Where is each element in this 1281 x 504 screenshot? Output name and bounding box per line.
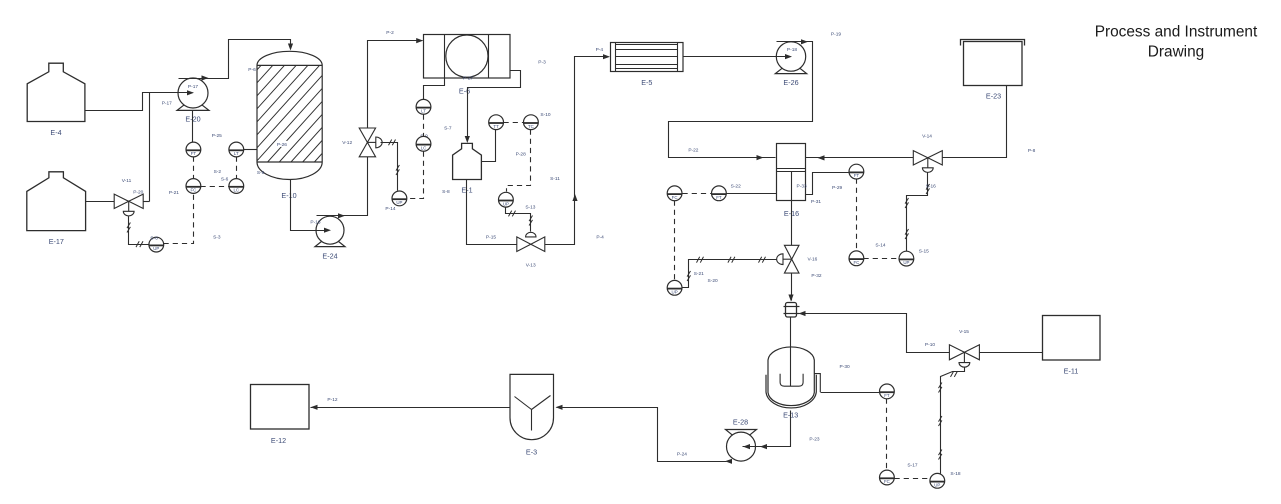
instrument FT left of E-16 [712, 186, 727, 201]
signal dashed FC to UP S-18 [895, 478, 930, 480]
instrument FT on E-13 [880, 384, 895, 399]
signal line UP to V-16 [683, 257, 783, 288]
signal S-10 dashed TT to TC [504, 112, 551, 123]
signal line UP to V-13 [506, 208, 533, 232]
svg-text:E-17: E-17 [49, 237, 64, 246]
tank E-1 [442, 126, 481, 196]
instrument FT [186, 133, 222, 157]
svg-text:V-14: V-14 [922, 134, 932, 140]
svg-text:LC: LC [233, 188, 239, 193]
svg-text:FC: FC [190, 188, 196, 193]
svg-text:S-6: S-6 [221, 177, 229, 183]
svg-text:FT: FT [884, 393, 890, 398]
svg-text:S-22: S-22 [731, 183, 741, 189]
instrument FC left of E-16 [667, 186, 682, 201]
signal dashed FC to UP [674, 201, 676, 281]
pump E-20 [162, 78, 209, 124]
instrument LC [229, 179, 244, 194]
svg-text:FT: FT [854, 173, 860, 178]
svg-text:P-23: P-23 [809, 437, 819, 443]
tank E-11 [1043, 316, 1101, 376]
svg-text:P-6: P-6 [248, 67, 256, 73]
svg-text:P-3: P-3 [538, 60, 546, 66]
instrument UP S-20 [667, 280, 682, 295]
svg-text:P-30: P-30 [840, 364, 850, 370]
svg-text:V-16: V-16 [807, 257, 817, 263]
tank E-4 [27, 63, 85, 137]
svg-text:P-22: P-22 [688, 148, 698, 154]
svg-text:UP: UP [934, 482, 940, 487]
instrument LC on E-6 [416, 136, 431, 151]
valve V-15 [949, 329, 979, 367]
compressor E-6 [424, 35, 547, 96]
svg-text:S-15: S-15 [919, 249, 929, 255]
svg-text:P-14: P-14 [385, 206, 395, 212]
pump E-28 [726, 417, 757, 461]
signal dashed FC to LC [201, 177, 229, 187]
svg-text:LC: LC [421, 145, 427, 150]
instrument TT [489, 115, 504, 130]
svg-text:S-6: S-6 [150, 236, 158, 242]
svg-text:P-16: P-16 [310, 220, 320, 226]
svg-text:E-28: E-28 [733, 417, 748, 426]
svg-text:FC: FC [853, 260, 859, 265]
svg-text:E-11: E-11 [1064, 366, 1079, 375]
svg-text:FT: FT [716, 195, 722, 200]
signal dashed FT to FC E-13 [886, 399, 888, 471]
stem E-20 base to FT [192, 111, 194, 143]
reactor E-13 [766, 347, 880, 420]
signal line V-15 to UP S-18 [939, 367, 965, 474]
pipe P-10 from V-15 to fitting [799, 311, 950, 353]
svg-text:S-21: S-21 [694, 271, 704, 277]
pipe from E-11 to V-15 [980, 352, 1043, 354]
svg-text:E-26: E-26 [783, 78, 798, 87]
svg-text:E-12: E-12 [271, 436, 286, 445]
inline fitting above E-13 [784, 295, 800, 318]
tap FT to E-16 [727, 193, 777, 195]
valve V-16 [777, 245, 822, 278]
pump E-24 [310, 216, 345, 261]
svg-text:FC: FC [884, 479, 890, 484]
svg-text:P-27: P-27 [463, 75, 473, 81]
svg-text:Drawing: Drawing [1148, 44, 1204, 61]
pipe from fitting into E-13 [790, 317, 792, 347]
instrument TC [524, 115, 539, 130]
vessel E-10 packed column [174, 51, 401, 200]
svg-text:UP: UP [903, 260, 909, 265]
svg-text:P-24: P-24 [677, 452, 687, 458]
svg-text:TC: TC [528, 124, 534, 129]
valve V-13 [486, 232, 545, 268]
tap LT to E-10 [244, 149, 257, 151]
svg-text:V-15: V-15 [959, 329, 969, 335]
instrument UP S-6 [149, 236, 164, 253]
svg-text:P-8: P-8 [1028, 148, 1036, 154]
pipe P-2 from V-12 to E-6 [368, 30, 424, 129]
pipe from V-11 to junction [144, 201, 150, 203]
pipe from E-17 to V-11 [86, 201, 115, 203]
signal dashed FT to FC right [856, 179, 858, 251]
svg-text:S-7: S-7 [444, 126, 452, 132]
svg-text:P-26: P-26 [277, 142, 287, 148]
tank E-12 [251, 385, 310, 446]
pipe P-32 from V-16 to fitting [791, 274, 793, 301]
svg-text:P-12: P-12 [327, 397, 337, 403]
svg-text:LT: LT [234, 151, 239, 156]
svg-text:P-31: P-31 [811, 199, 821, 205]
svg-text:S-16: S-16 [926, 184, 936, 190]
svg-text:UP: UP [153, 246, 159, 251]
svg-text:S-8: S-8 [442, 189, 450, 195]
pipe P-4 from V-13 to E-5 [545, 47, 611, 245]
signal S-3 dashed UP to FC [164, 194, 221, 244]
filter E-3 [510, 374, 554, 456]
svg-text:UP: UP [503, 201, 509, 206]
svg-text:P-19: P-19 [831, 32, 841, 38]
svg-text:P-15: P-15 [486, 235, 496, 241]
svg-text:S-5: S-5 [257, 170, 265, 176]
svg-text:UP: UP [672, 289, 678, 294]
svg-text:P-4: P-4 [596, 47, 604, 53]
svg-text:S-3: S-3 [213, 234, 221, 240]
svg-text:P-20: P-20 [133, 190, 143, 196]
pipe from E-5 to E-26 [684, 54, 793, 59]
svg-text:P-32: P-32 [811, 273, 821, 279]
svg-text:E-10: E-10 [281, 191, 296, 200]
instrument FC S-17 [880, 463, 918, 485]
tank E-17 [27, 172, 86, 246]
signal S-9 dashed LC to UP [407, 152, 424, 199]
svg-text:S-14: S-14 [875, 242, 885, 248]
svg-text:S-11: S-11 [550, 176, 560, 182]
signal P-28 dashed TC to UP [507, 130, 561, 192]
heat exchanger E-5 [611, 43, 684, 87]
signal S-22 dashed FC to FT [683, 183, 742, 193]
svg-text:V-12: V-12 [342, 140, 352, 146]
pipe from E-10 to E-24 [291, 180, 332, 233]
svg-text:E-23: E-23 [986, 91, 1001, 100]
svg-text:P-2: P-2 [386, 30, 394, 36]
instrument FC S-14 [849, 242, 886, 265]
signal dashed FT to FC [193, 157, 195, 179]
valve V-11 [114, 178, 143, 216]
signal line V-12 to UP P-14 [381, 140, 400, 191]
separator E-16 [777, 144, 822, 218]
pump E-26 [775, 42, 806, 87]
signal line V-11 to UP [127, 217, 149, 248]
pipe P-24 from E-28 to E-3 [556, 405, 733, 464]
svg-text:P-17: P-17 [188, 84, 198, 90]
svg-text:UP: UP [396, 200, 402, 205]
svg-text:LT: LT [421, 108, 426, 113]
svg-text:P-33: P-33 [797, 184, 807, 190]
tap E-1 to TT [482, 130, 496, 162]
pipe from E-24 to V-12 [317, 157, 368, 219]
title [1095, 24, 1258, 61]
svg-text:FC: FC [672, 195, 678, 200]
instrument UP S-15 [899, 249, 929, 266]
svg-text:P-18: P-18 [787, 47, 797, 53]
svg-text:P-21: P-21 [169, 190, 179, 196]
svg-text:P-17: P-17 [162, 100, 172, 106]
svg-text:E-3: E-3 [526, 447, 537, 456]
svg-text:S-20: S-20 [708, 278, 718, 284]
stub E-6 to LT [424, 79, 445, 100]
svg-text:V-13: V-13 [526, 263, 536, 269]
svg-text:P-28: P-28 [516, 152, 526, 158]
pipe P-12 from E-3 to E-12 [311, 397, 511, 410]
svg-text:E-4: E-4 [50, 128, 61, 137]
svg-text:Process and Instrument: Process and Instrument [1095, 24, 1258, 41]
svg-text:P-4: P-4 [596, 235, 604, 241]
svg-text:S-13: S-13 [525, 205, 535, 211]
valve V-14 [913, 134, 942, 173]
svg-text:S-2: S-2 [214, 169, 222, 175]
instrument LT on E-6 [416, 99, 431, 114]
svg-text:E-5: E-5 [641, 78, 652, 87]
instrument UP P-14 [385, 191, 406, 212]
pipe P-8 from E-23 through V-14 to E-16 [806, 86, 1036, 161]
signal S-9 dashed LT to LC [420, 115, 428, 140]
pipe P-22 from E-26 to E-16 [669, 32, 842, 161]
pipe from E-1 to V-13 [467, 180, 517, 245]
pipe from V-11 junction riser [149, 93, 151, 202]
svg-text:TT: TT [493, 124, 499, 129]
pipe P-1 from E-20 to E-10 [179, 40, 294, 81]
svg-text:E-24: E-24 [322, 252, 337, 261]
svg-text:FT: FT [191, 151, 197, 156]
instrument UP S-18 [930, 471, 961, 488]
instrument FT right of E-16 [849, 164, 864, 179]
svg-text:S-17: S-17 [907, 463, 917, 469]
svg-text:P-25: P-25 [212, 133, 222, 139]
svg-text:V-11: V-11 [122, 178, 132, 184]
valve V-12 [342, 128, 382, 157]
tap E-16 to FT right [806, 173, 849, 195]
svg-text:P-29: P-29 [832, 185, 842, 191]
instrument LT [229, 142, 244, 157]
pipe from E-6 to E-1 [465, 71, 521, 144]
pipe from E-4 to E-20 [85, 90, 195, 110]
signal line V-14 to UP [905, 173, 936, 252]
instrument UP S-13 [499, 192, 536, 210]
svg-text:S-10: S-10 [540, 112, 550, 118]
signal dashed FC to UP right [864, 258, 899, 260]
pipe from E-16 to V-16 [791, 172, 793, 246]
pipe P-23 from E-13 to E-28 [743, 411, 820, 450]
instrument FC [169, 179, 201, 196]
svg-text:P-10: P-10 [925, 342, 935, 348]
tank E-23 [961, 40, 1025, 101]
svg-text:S-18: S-18 [950, 471, 960, 477]
signal S-2 dashed LT to LC [214, 157, 237, 179]
